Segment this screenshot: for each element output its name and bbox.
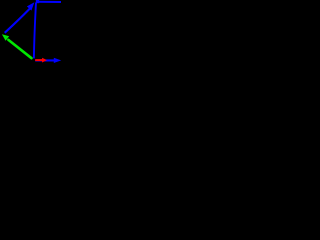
pivot marker (blue square) (36, 0, 39, 3)
vector V4 head (42, 58, 47, 63)
vector V4 shaft (red arrow) (35, 59, 42, 61)
vector V2 head (2, 34, 9, 41)
vector V3 shaft (blue bottom arrow) (35, 59, 54, 61)
top rail (blue horizontal reference line) (38, 1, 62, 3)
vector V1 shaft (blue diagonal arrow) (5, 9, 30, 33)
rod (blue link, slightly curved) (34, 3, 36, 59)
vector V2 shaft (green arrow) (8, 40, 31, 58)
vector V3 head (54, 58, 61, 63)
vector V1 head (27, 2, 35, 10)
